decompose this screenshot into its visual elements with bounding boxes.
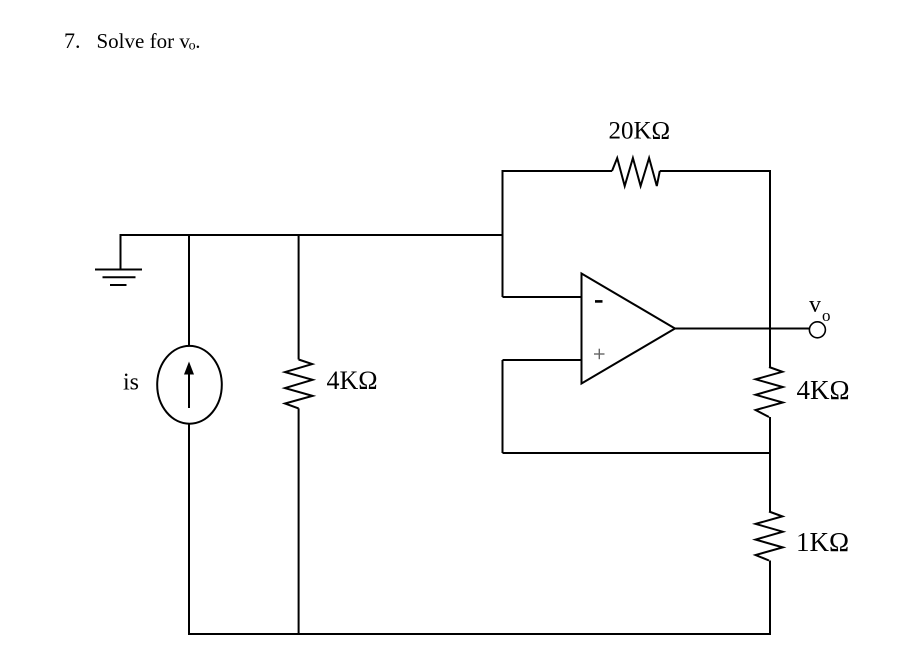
wire: right vertical from feedback to output node	[769, 170, 771, 329]
wire: op-amp output	[675, 328, 809, 330]
svg-text:4KΩ: 4KΩ	[797, 375, 850, 405]
label minus input	[595, 300, 603, 303]
wire: non-inverting branch horizontal to divider node	[503, 452, 771, 454]
wire: bottom of left 4K resistor	[298, 408, 300, 634]
resistor R2 20KOhm (feedback, horizontal)	[612, 158, 660, 186]
wire: output node down to right 4K resistor	[769, 328, 771, 367]
wire: top node from ground to inverting branch	[120, 234, 503, 236]
resistor R4 1KOhm (right, vertical)	[756, 512, 783, 561]
ground	[95, 235, 142, 285]
wire: feedback left vertical	[502, 171, 504, 297]
resistor R1 4KOhm (left, vertical)	[285, 360, 313, 409]
wire: top of left 4K resistor	[298, 235, 300, 360]
wire: non-inverting branch vertical	[502, 360, 504, 453]
label plus input	[594, 349, 605, 360]
svg-text:1KΩ: 1KΩ	[796, 527, 849, 557]
wire: feedback top right segment	[660, 170, 771, 172]
wire: inverting input	[503, 296, 582, 298]
svg-text:7.: 7.	[64, 28, 81, 53]
title: 7. Solve for vo.	[64, 28, 201, 54]
label is	[123, 370, 139, 396]
wire: 1K resistor to bottom rail	[769, 561, 771, 636]
wire: bottom rail	[188, 633, 770, 635]
svg-text:Solve for v: Solve for v	[97, 29, 191, 53]
svg-text:is: is	[123, 370, 139, 396]
wire: bottom of current source	[188, 424, 190, 634]
wire: feedback top left segment	[502, 170, 613, 172]
wire: top of current source	[188, 235, 190, 347]
svg-text:20KΩ: 20KΩ	[609, 118, 671, 145]
label 4KOhm right	[797, 375, 850, 405]
svg-text:.: .	[195, 29, 200, 53]
node Vo terminal	[809, 322, 825, 338]
label 4KOhm left	[327, 366, 378, 395]
current source is	[157, 346, 222, 424]
svg-text:o: o	[822, 306, 831, 325]
op-amp U1	[582, 274, 676, 384]
resistor R3 4KOhm (right, vertical)	[756, 367, 783, 417]
wire: right 4K resistor to divider node	[769, 417, 771, 512]
svg-text:v: v	[809, 292, 821, 318]
label 20KOhm	[609, 118, 671, 145]
label vo	[809, 292, 831, 325]
wire: non-inverting input	[503, 359, 582, 361]
svg-text:4KΩ: 4KΩ	[327, 366, 378, 395]
label 1KOhm	[796, 527, 849, 557]
